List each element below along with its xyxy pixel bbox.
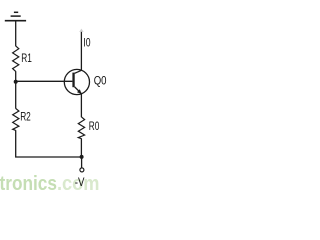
svg-text:R1: R1 (21, 51, 32, 65)
svg-text:R0: R0 (89, 119, 100, 133)
wire R1 to node A (15, 71, 17, 82)
node A junction dot (14, 80, 18, 84)
wire R0 to node B (80, 139, 82, 158)
wire R2 to bottom rail and node B (16, 130, 82, 157)
resistor R2 (13, 109, 19, 131)
port -V terminal circle (80, 168, 84, 172)
wire emitter to R0 (80, 94, 82, 118)
svg-text:I0: I0 (83, 35, 90, 49)
wire collector to I0 terminal (80, 31, 82, 71)
svg-text:-V: -V (75, 175, 85, 189)
transistor Q0 (64, 69, 89, 94)
resistor R0 (78, 117, 84, 139)
svg-text:Q0: Q0 (94, 74, 107, 88)
battery V1 (top supply symbol) (5, 12, 26, 20)
resistor R1 (13, 46, 19, 72)
wire battery to R1 (15, 21, 17, 47)
wire node B to port -V (81, 157, 83, 168)
svg-text:R2: R2 (20, 109, 31, 123)
node B junction dot (80, 155, 84, 159)
svg-text:tronics: tronics (0, 173, 57, 194)
wire node A to R2 (15, 82, 17, 109)
wire node A to Q0 base (16, 80, 73, 82)
current arrow I0 (faint) (79, 29, 83, 32)
